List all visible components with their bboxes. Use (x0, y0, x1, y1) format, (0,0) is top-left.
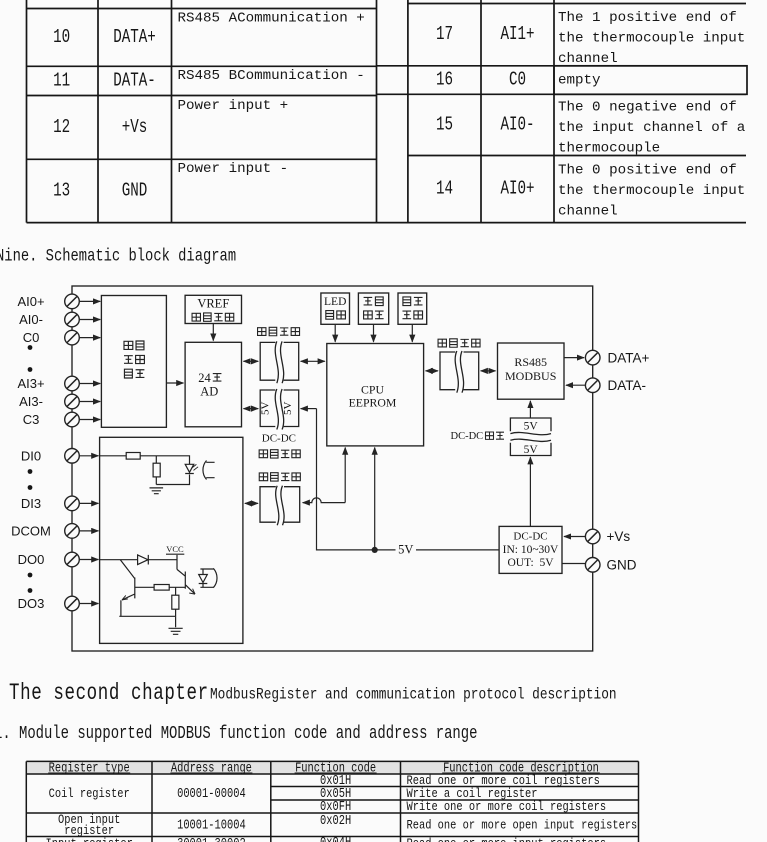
svg-text:AI3+: AI3+ (17, 376, 44, 391)
svg-text:Input register: Input register (46, 836, 133, 842)
wire RS485 to DATA+ (564, 357, 584, 359)
wire isolator to CPU riser (with hop over 5V feed) (303, 498, 346, 503)
wire LED cathode to ground rail (156, 475, 189, 485)
svg-text:DATA+: DATA+ (608, 350, 650, 365)
resistor R1 series (126, 453, 140, 460)
terminal AI3+ (65, 376, 80, 391)
svg-text:channel: channel (558, 51, 618, 67)
wire CPU to isolator (bidirectional) (426, 370, 438, 372)
svg-text:AI0+: AI0+ (17, 294, 44, 309)
svg-text:the thermocouple input: the thermocouple input (558, 31, 745, 47)
terminal DO3 (65, 596, 80, 611)
terminal DO0 (65, 552, 80, 567)
svg-text:11: 11 (53, 71, 70, 93)
label: signal isolation (upper left) (258, 328, 266, 336)
svg-text:10: 10 (53, 27, 70, 49)
wire AD to 5V isolator (bidirectional) (244, 408, 259, 410)
ground GND1 (150, 488, 164, 494)
block: VREF voltage reference U-VREF (185, 295, 241, 323)
svg-text:the thermocouple input: the thermocouple input (558, 183, 745, 199)
svg-text:1. Module supported MODBUS fun: 1. Module supported MODBUS function code… (0, 722, 477, 744)
label 5V on rail (396, 544, 417, 556)
svg-text:DC-DC: DC-DC (451, 431, 484, 442)
block: reset circuit (358, 293, 388, 324)
svg-text:DCOM: DCOM (11, 524, 51, 539)
wire: 5V junction up to CPU (374, 448, 376, 550)
svg-text:AD: AD (200, 385, 218, 399)
VCC rail (166, 553, 184, 555)
svg-text:Address range: Address range (171, 760, 252, 776)
svg-text:30001-30002: 30001-30002 (177, 836, 246, 842)
svg-text:5V: 5V (524, 444, 539, 456)
terminal DI3 (65, 496, 80, 511)
svg-text:DATA-: DATA- (113, 71, 156, 93)
wire: 5V rail from DC-DC to power isolator (317, 409, 500, 550)
resistor R4 base (154, 585, 169, 591)
block: debug switch (398, 293, 427, 324)
svg-text:Power input -: Power input - (178, 161, 289, 177)
svg-text:Write one or more coil registe: Write one or more coil registers (407, 799, 607, 814)
terminal C3 (65, 412, 80, 427)
svg-text:IN: 10~30V: IN: 10~30V (503, 544, 559, 556)
wire DIO box to isolator (bidirectional) (245, 502, 258, 504)
svg-text:AI0+: AI0+ (500, 179, 534, 201)
ellipsis dots between pin labels (28, 345, 33, 593)
svg-text:+Vs: +Vs (607, 529, 631, 544)
svg-text:VCC: VCC (166, 544, 184, 554)
opto U4 phototransistor (203, 461, 215, 480)
svg-text:5V: 5V (398, 543, 413, 557)
svg-text:16: 16 (436, 70, 453, 92)
block: digital input/output opto-isolated circuits (100, 437, 243, 643)
terminal AI0- (65, 312, 80, 327)
svg-text:24: 24 (198, 371, 211, 385)
svg-text:00001-00004: 00001-00004 (177, 786, 246, 802)
svg-text:17: 17 (436, 24, 453, 46)
block: input conditioning circuit (shuru tiaoli dianlu) (101, 296, 166, 428)
svg-text:DI3: DI3 (21, 496, 41, 511)
opto U5 LED (199, 569, 208, 587)
opto U5 phototransistor (200, 568, 217, 587)
terminal AI3- (65, 394, 80, 409)
svg-text:channel: channel (558, 204, 618, 220)
terminal DI0 (65, 449, 80, 464)
svg-text:13: 13 (53, 181, 70, 203)
svg-text:5V: 5V (282, 402, 294, 416)
svg-text:0x02H: 0x02H (320, 813, 351, 829)
wire 5V isolator up to RS485 (529, 401, 531, 418)
terminal C0 (65, 330, 80, 345)
wire isolator to CPU (bidirectional) (301, 360, 325, 362)
isolator: DC-DC isolation 5V stack (510, 418, 551, 456)
svg-text:Read one or more input registe: Read one or more input registers (407, 836, 607, 842)
svg-text:The 0 negative end of: The 0 negative end of (558, 100, 737, 116)
svg-text:the input channel of a: the input channel of a (558, 120, 746, 136)
svg-text:The 0 positive end of: The 0 positive end of (558, 163, 737, 179)
left pin name labels (11, 294, 51, 611)
DO output circuit: wire from DO0 (100, 555, 177, 570)
wire AD to isolator (bidirectional) (244, 360, 259, 362)
op block: CPU EEPROM U1 (327, 344, 424, 446)
svg-text:0x04H: 0x04H (320, 835, 351, 842)
svg-text:ModbusRegister and communicati: ModbusRegister and communication protoco… (210, 686, 617, 704)
wire isolator to RS485 (bidirectional) (481, 370, 496, 372)
svg-text:Coil register: Coil register (49, 786, 130, 801)
svg-text:thermocouple: thermocouple (558, 141, 660, 157)
isolator: DC-DC power isolation 5V/5V (260, 389, 299, 430)
svg-text:AI1+: AI1+ (500, 24, 534, 46)
terminal AI0+ (65, 294, 80, 309)
resistor R5 (172, 595, 179, 609)
diagram outer border (72, 286, 593, 651)
svg-text:empty: empty (558, 73, 601, 89)
svg-text:AI3-: AI3- (19, 394, 43, 409)
transistor Q2 (177, 569, 195, 594)
terminal GND (585, 558, 600, 573)
wire GND to DC-DC (562, 563, 586, 565)
svg-text:DC-DC: DC-DC (513, 531, 547, 543)
svg-text:GND: GND (122, 181, 148, 203)
svg-text:Power input +: Power input + (178, 98, 289, 114)
block: RS485 MODBUS transceiver U2 (498, 343, 565, 399)
svg-text:The second chapter: The second chapter (9, 681, 209, 707)
svg-text:AI0-: AI0- (19, 312, 43, 327)
svg-text:DI0: DI0 (21, 448, 41, 463)
block: 24-bit AD converter (185, 342, 241, 427)
terminal +Vs (585, 529, 600, 544)
svg-text:10001-10004: 10001-10004 (177, 817, 246, 833)
svg-text:CPU: CPU (361, 383, 384, 397)
terminal DATA- (585, 378, 600, 393)
svg-text:VREF: VREF (197, 296, 229, 310)
svg-text:DATA+: DATA+ (113, 27, 156, 49)
svg-text:RS485: RS485 (514, 355, 547, 369)
svg-text:5V: 5V (524, 420, 539, 432)
svg-text:RS485 BCommunication -: RS485 BCommunication - (178, 68, 365, 84)
svg-text:GND: GND (607, 558, 637, 573)
svg-text:AI0-: AI0- (500, 115, 534, 137)
svg-text:15: 15 (436, 115, 453, 137)
terminal DCOM (65, 524, 80, 539)
wire DATA- to RS485 (566, 384, 586, 386)
node: 5V junction (372, 547, 378, 553)
svg-text:Nine. Schematic block diagram: Nine. Schematic block diagram (0, 246, 236, 266)
svg-text:14: 14 (436, 179, 453, 201)
transistor Q1 (120, 560, 135, 617)
resistor R2 pulldown (155, 456, 157, 485)
svg-text:The 1 positive end of: The 1 positive end of (558, 10, 737, 26)
svg-text:EEPROM: EEPROM (349, 396, 397, 410)
block: DC-DC converter U3 (499, 526, 562, 573)
svg-text:OUT: 5V: OUT: 5V (507, 557, 554, 569)
label: signal isolation (right) (438, 339, 446, 347)
wire conditioning to AD (166, 382, 183, 384)
svg-text:+Vs: +Vs (122, 117, 148, 139)
svg-text:LED: LED (324, 296, 346, 308)
wire DC-DC converter up to 5V isolator (529, 457, 531, 526)
wire LED block to CPU (334, 324, 336, 342)
terminal DATA+ (585, 350, 600, 365)
wire reset block to CPU (373, 324, 375, 342)
wire VREF to AD converter (212, 324, 214, 341)
svg-text:5V: 5V (259, 402, 271, 416)
opto U4 LED (185, 464, 194, 473)
svg-text:DO3: DO3 (18, 596, 45, 611)
isolator: signal isolation CPU-RS485 (440, 351, 479, 393)
wire bottom rail to ground (119, 616, 175, 627)
isolator: signal isolation DIO-CPU (260, 486, 300, 526)
diode D1 (138, 555, 149, 565)
DI input circuit: wire from DI0 (100, 456, 190, 465)
svg-text:DO0: DO0 (18, 552, 45, 567)
svg-text:12: 12 (53, 117, 70, 139)
wire 5V feed into power isolator (301, 408, 317, 410)
wire debug block to CPU (411, 324, 413, 342)
svg-text:Register type: Register type (49, 760, 130, 776)
svg-text:DC-DC: DC-DC (262, 433, 296, 445)
svg-text:C0: C0 (23, 330, 40, 345)
wires: terminal arrows into blocks (79, 301, 100, 603)
svg-text:MODBUS: MODBUS (505, 369, 556, 383)
svg-text:C0: C0 (509, 70, 526, 92)
label: signal isolation (digital IO) (259, 473, 267, 481)
ground GND2 (169, 628, 183, 634)
svg-text:Read one or more open input re: Read one or more open input registers (407, 817, 638, 832)
svg-text:RS485 ACommunication +: RS485 ACommunication + (178, 11, 365, 27)
svg-text:C3: C3 (23, 412, 40, 427)
wire +Vs into DC-DC (564, 536, 586, 538)
block: LED display (321, 293, 350, 324)
isolator: signal isolation AD-CPU (260, 341, 299, 383)
svg-text:DATA-: DATA- (608, 378, 647, 393)
